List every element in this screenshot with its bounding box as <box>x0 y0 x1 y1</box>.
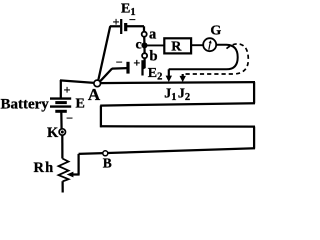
svg-text:−: − <box>129 13 136 27</box>
svg-text:−: − <box>66 111 73 125</box>
svg-text:a: a <box>149 27 157 43</box>
svg-text:−: − <box>116 55 123 69</box>
svg-text:A: A <box>88 85 101 104</box>
svg-text:K: K <box>47 125 59 141</box>
svg-text:Battery: Battery <box>1 97 50 113</box>
svg-text:B: B <box>103 155 112 170</box>
svg-text:R: R <box>171 39 182 54</box>
svg-text:c: c <box>136 38 142 53</box>
svg-text:+: + <box>64 83 71 97</box>
svg-text:+: + <box>113 15 120 29</box>
svg-text:Rh: Rh <box>34 160 55 176</box>
svg-text:G: G <box>210 23 221 38</box>
svg-text:+: + <box>133 56 140 70</box>
svg-text:b: b <box>150 49 158 65</box>
svg-text:E: E <box>76 97 85 112</box>
